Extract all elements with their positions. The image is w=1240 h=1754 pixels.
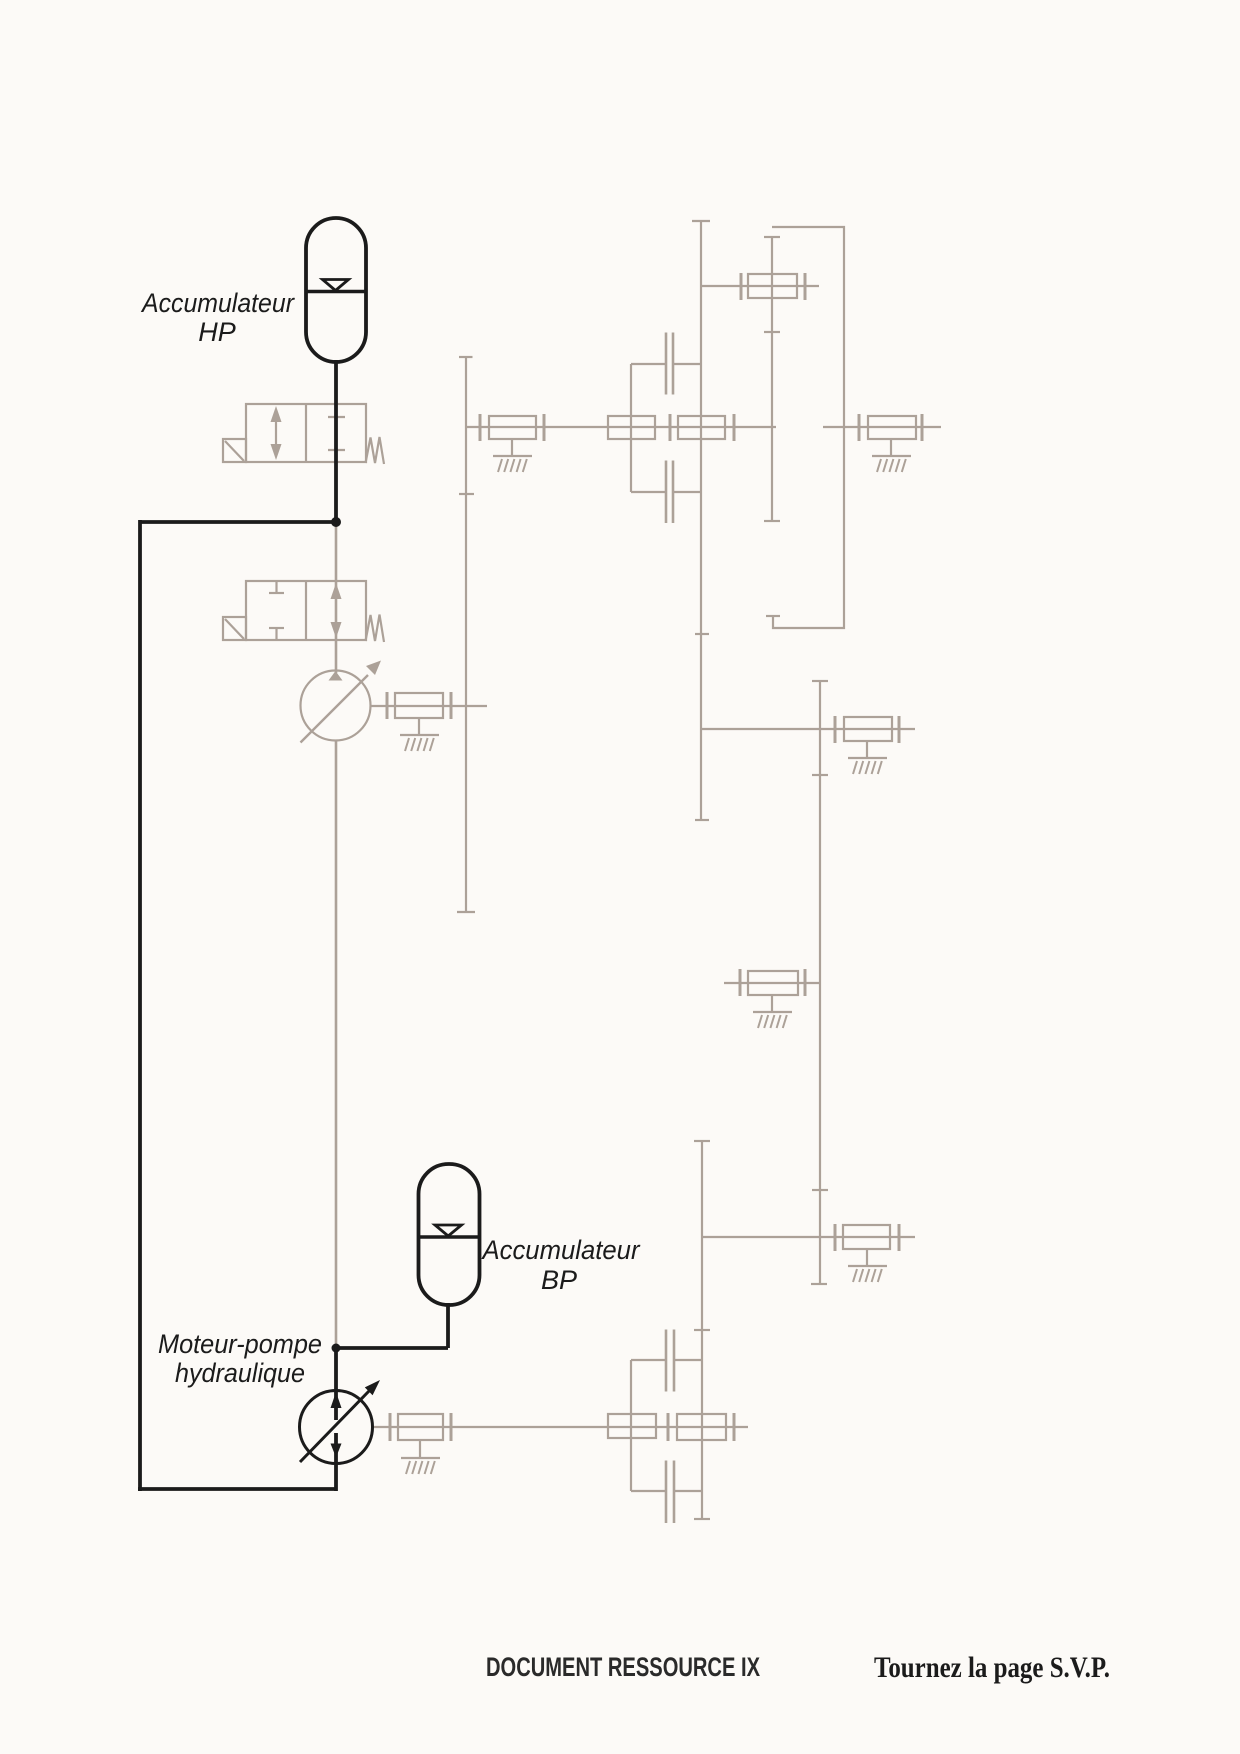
bearing B2 tick [543, 414, 546, 441]
grey hydraulic line junction->valve2->pump P1 [335, 525, 338, 673]
bearing B3 housing [678, 416, 725, 439]
bearing B1 housing [395, 693, 443, 718]
svg-text:Accumulateur: Accumulateur [481, 1235, 641, 1265]
svg-text:BP: BP [541, 1265, 577, 1295]
gear row R6 (y=1427) main line [374, 1426, 748, 1428]
bearing B6 tick [834, 716, 837, 743]
pump P1 variable arrow [301, 661, 382, 743]
gear block G2 [608, 1414, 656, 1438]
valve V2 left-box closed-port T marks [269, 581, 284, 640]
bearing B4 tick [858, 414, 861, 441]
bearing row R3 (y=729) [702, 728, 915, 730]
wire left loop: bottom horizontal [138, 1487, 336, 1491]
motor-pump P2 lower triangle [331, 1444, 342, 1458]
junction J1 [331, 517, 341, 527]
ground under bearing B8 [848, 1249, 887, 1282]
bearing B10 housing [677, 1414, 726, 1440]
gear block G1 [608, 416, 655, 439]
GRAY MECHANICAL TRANSMISSION LAYER [223, 221, 941, 1523]
valve V1 right-box closed-port dashes [328, 417, 345, 450]
vertical shaft S2 (x=701, planetary input) [692, 221, 710, 820]
bearing row R4 (y=983) [724, 982, 820, 984]
valve V1 body (2/2 solenoid valve, grey) [246, 404, 366, 462]
valve V1 solenoid box [223, 439, 246, 462]
ground under bearing B1 [400, 718, 439, 751]
bearing B8 housing [843, 1225, 890, 1249]
clutch C3 plates (upper, bottom assembly) [631, 1330, 702, 1392]
pump P1 flow triangle [329, 671, 343, 681]
svg-text:Accumulateur: Accumulateur [140, 288, 295, 318]
wire accumulator BP down [446, 1303, 450, 1348]
bearing B5 tick [804, 273, 807, 300]
accumulator BP shell [419, 1164, 480, 1305]
wire accumulator BP to junction J2 [336, 1346, 448, 1350]
vertical shaft S4 (x=820) [811, 681, 828, 1284]
svg-text:HP: HP [198, 317, 236, 347]
clutch link bar (x=631 bottom assembly) [630, 1360, 632, 1491]
pump P1 output shaft [370, 705, 487, 707]
bearing B6 tick [898, 716, 901, 743]
vertical shaft S5 (x=702 bottom assembly) [694, 1141, 710, 1519]
vertical shaft S1 (far left of gearbox) [457, 357, 475, 912]
valve V2 right-box double arrow [331, 583, 342, 638]
clutch C1 plates (upper, top assembly) [631, 333, 701, 395]
ground under bearing B7 [753, 995, 792, 1028]
svg-text:Tournez la page S.V.P.: Tournez la page S.V.P. [874, 1651, 1110, 1684]
wire left loop: top horizontal [140, 520, 336, 524]
valve V2 solenoid box [223, 617, 246, 640]
ground under bearing B6 [848, 741, 887, 774]
bearing row R2 top (y=286) [701, 285, 819, 287]
ground under bearing B4 [872, 439, 911, 472]
ground under bearing B2 [493, 439, 532, 472]
svg-text:DOCUMENT RESSOURCE IX: DOCUMENT RESSOURCE IX [486, 1652, 760, 1682]
bearing B5 housing [748, 274, 797, 298]
bearing row R5 (y=1237) [702, 1236, 915, 1238]
bearing B3 tick [669, 414, 672, 441]
carrier bracket frame [766, 227, 844, 628]
clutch C2 plates (lower, top assembly) [631, 461, 701, 524]
BLACK HYDRAULIC LAYER [138, 218, 480, 1491]
bearing B7 tick [739, 969, 742, 996]
accumulator BP gas triangle [435, 1225, 462, 1236]
accumulator HP shell [306, 218, 366, 362]
gear row R1 main horizontal line [466, 426, 941, 428]
shaft coupling tick [450, 692, 453, 719]
bearing B10 tick [667, 1413, 670, 1441]
svg-text:Moteur-pompe: Moteur-pompe [158, 1329, 322, 1359]
bearing B3 tick [733, 414, 736, 441]
bearing B7 tick [804, 969, 807, 996]
svg-text:hydraulique: hydraulique [175, 1358, 305, 1388]
wire left loop: vertical [138, 520, 142, 1491]
motor-pump P2 upper triangle [331, 1392, 342, 1408]
valve V2 return spring [366, 615, 385, 643]
bearing B2 housing [489, 416, 536, 439]
pump P1 variable unit circle [301, 671, 371, 741]
bearing B4 tick [921, 414, 924, 441]
bearing B8 tick [834, 1224, 837, 1251]
wire junction J2 to pump P2 [334, 1346, 338, 1420]
bearing B9 tick [389, 1413, 392, 1441]
motor-pump P2 variable arrow [300, 1380, 380, 1462]
valve V1 left-box double arrow [271, 406, 282, 460]
bearing B7 housing [748, 971, 798, 995]
valve V1 return spring [366, 437, 385, 464]
bearing B10 tick [733, 1413, 736, 1441]
junction J2 [332, 1344, 341, 1353]
bearing B2 ticks [479, 414, 482, 441]
wire pump P2 bottom to loop [334, 1433, 338, 1491]
bearing B9 tick [450, 1413, 453, 1441]
accumulator HP separator line [306, 290, 366, 293]
bearing B6 housing [844, 717, 892, 741]
clutch link bar (x=631 top assembly) [630, 364, 632, 492]
accumulator HP gas triangle [323, 280, 349, 291]
ground under bearing B9 [401, 1440, 440, 1474]
accumulator BP separator line [419, 1235, 480, 1238]
wire accumulator HP to junction J1 [334, 360, 338, 522]
valve V2 body (2/2 solenoid valve, grey) [246, 581, 366, 640]
TEXT LAYER [140, 288, 1110, 1684]
grey hydraulic line pump P1 -> junction J2 [335, 741, 338, 1346]
clutch C4 plates (lower, bottom assembly) [631, 1461, 702, 1524]
bearing B5 tick [740, 273, 743, 300]
shaft coupling tick [386, 692, 389, 719]
vertical shaft S3 (x=772) [764, 237, 780, 521]
bearing B9 housing [398, 1414, 443, 1440]
motor-pump P2 circle [300, 1391, 373, 1464]
bearing B4 housing [868, 416, 916, 439]
bearing B8 tick [898, 1224, 901, 1251]
